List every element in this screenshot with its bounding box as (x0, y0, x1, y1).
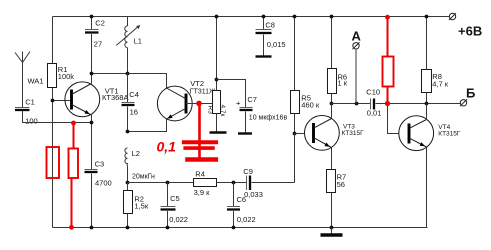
node R5 VT3 base (293, 132, 297, 136)
svg-text:0,022: 0,022 (237, 215, 256, 224)
red resistor annotation 2 (69, 149, 79, 179)
svg-text:0,015: 0,015 (267, 40, 286, 49)
node red rail (385, 15, 390, 20)
node C3 bottom rail (90, 226, 94, 230)
svg-text:L1: L1 (134, 37, 142, 46)
capacitor C3 (85, 123, 98, 228)
wire collector node to VT2 collector (92, 74, 167, 89)
svg-text:100: 100 (25, 116, 38, 125)
svg-text:4700: 4700 (95, 178, 112, 187)
antenna WA1 (15, 52, 30, 108)
resistor R3 (213, 17, 221, 132)
resistor R6 (328, 17, 337, 104)
inductor L1 variable (116, 17, 140, 74)
transistor VT1 (65, 82, 100, 117)
capacitor C4 (122, 74, 135, 132)
node C5 rail (166, 226, 170, 230)
svg-text:0,01: 0,01 (367, 109, 382, 118)
node red bottom (385, 101, 390, 106)
node VT1 collector (90, 72, 94, 76)
red resistor annotation 1 (47, 147, 60, 178)
wire VT3 base (295, 133, 314, 135)
transistor VT3 (305, 115, 340, 150)
wire right column VT4 emitter to bottom rail (427, 147, 428, 228)
svg-text:R4: R4 (195, 169, 205, 178)
svg-text:C8: C8 (265, 20, 275, 29)
node R7 rail (330, 226, 334, 230)
capacitor C1 (15, 108, 30, 111)
svg-text:4,7к: 4,7к (219, 105, 226, 117)
svg-text:C9: C9 (243, 167, 253, 176)
svg-text:+6В: +6В (458, 24, 482, 39)
svg-text:1,5к: 1,5к (134, 202, 148, 211)
capacitor C5 (161, 183, 176, 228)
wire R4 to C9 (217, 182, 247, 184)
transistor VT4 (399, 116, 434, 151)
svg-text:C4: C4 (129, 90, 139, 99)
wire C1 bottom to emitter wire (23, 111, 92, 123)
node rail R5 (293, 15, 297, 19)
svg-text:460 к: 460 к (301, 101, 320, 110)
red annotation line VT1 emitter (73, 123, 75, 149)
wire top +6V rail (53, 16, 450, 18)
resistor R5 (291, 17, 300, 134)
capacitor C9 (247, 176, 251, 191)
svg-text:4,7 к: 4,7 к (432, 79, 449, 88)
wire R6 node to C10 (332, 103, 371, 105)
node C5 (166, 181, 170, 185)
resistor R2 (124, 183, 133, 228)
wire VT3 emitter to R7 (331, 148, 333, 170)
node base VT1 (51, 99, 55, 103)
node C4 L2 junction (126, 130, 130, 134)
svg-text:WA1: WA1 (28, 77, 44, 86)
node red rail (69, 225, 74, 230)
svg-text:16: 16 (130, 108, 138, 117)
svg-text:0,1: 0,1 (157, 139, 177, 155)
ground C7 (238, 132, 252, 134)
svg-text:56: 56 (337, 180, 345, 189)
wire bottom ground rail (53, 227, 428, 229)
svg-text:0,022: 0,022 (169, 215, 188, 224)
capacitor C6 (227, 183, 240, 228)
inductor L2 (125, 148, 128, 183)
node R8 bottom (425, 102, 429, 106)
node R3 top wire (215, 78, 219, 82)
wire L2 R4 C9 row (128, 182, 194, 184)
wire left column R1 from rail to bottom rail (52, 17, 54, 228)
node R2 bottom rail (126, 226, 130, 230)
node C6 (232, 181, 236, 185)
svg-text:КТ315Г: КТ315Г (438, 131, 461, 138)
terminal Б (460, 99, 467, 106)
node rail R6 (330, 15, 334, 19)
svg-text:VT2: VT2 (190, 79, 204, 88)
svg-text:C1: C1 (25, 97, 35, 106)
wire VT1 base (53, 100, 72, 102)
svg-text:10 мкфх16в: 10 мкфх16в (249, 114, 288, 121)
ground C8 (256, 55, 272, 57)
svg-text:C6: C6 (237, 195, 247, 204)
wire VT1 collector up to node (91, 74, 93, 84)
svg-text:1 к: 1 к (338, 79, 348, 88)
svg-text:КТ315Г: КТ315Г (342, 130, 365, 137)
node VT1 emitter (90, 121, 94, 125)
terminal A (353, 42, 360, 49)
svg-text:C3: C3 (95, 159, 105, 168)
resistor red highlighted (383, 17, 394, 107)
svg-text:C2: C2 (95, 19, 105, 28)
resistor R7 (327, 170, 336, 228)
wire VT4 collector (426, 104, 428, 120)
wire C10 to R8 node to Б (376, 103, 461, 105)
wire VT3 collector (331, 104, 333, 119)
node rail R3 (215, 15, 219, 19)
svg-text:C10: C10 (366, 87, 380, 96)
wire VT2 emitter to C4 node (128, 119, 167, 132)
node R6 bottom (330, 102, 334, 106)
capacitor C7 electrolytic (240, 108, 253, 133)
capacitor C10 (371, 99, 375, 110)
svg-text:А: А (352, 29, 362, 44)
svg-text:L2: L2 (132, 149, 140, 158)
red annotation capacitor 0,1 (182, 103, 218, 160)
node L1 bottom (126, 72, 130, 76)
wire VT1 emitter down (91, 115, 93, 123)
svg-text:3,9 к: 3,9 к (194, 188, 211, 197)
capacitor C2 (85, 17, 99, 74)
node red VT2 base (196, 101, 202, 107)
ground main (321, 228, 343, 236)
transistor VT2 (157, 86, 192, 121)
ground R3 (210, 131, 227, 133)
resistor R8 (422, 17, 432, 104)
wire C9 to corner (252, 182, 295, 184)
wire VT4 base (388, 106, 410, 134)
resistor R1 (48, 64, 57, 88)
svg-text:+: + (236, 99, 241, 108)
node red emitter wire (71, 121, 76, 126)
wire R3 node to C7 (217, 80, 246, 108)
svg-text:КТ368А: КТ368А (102, 93, 128, 102)
capacitor C8 (256, 17, 272, 56)
svg-text:C7: C7 (247, 95, 257, 104)
svg-text:20мкГн: 20мкГн (132, 174, 155, 181)
wire A terminal down (355, 49, 358, 104)
svg-text:100k: 100k (58, 72, 75, 81)
node C6 rail (232, 226, 236, 230)
svg-text:Б: Б (466, 86, 475, 101)
node L2 bottom (126, 181, 130, 185)
svg-text:0,033: 0,033 (244, 190, 263, 199)
terminal +6V (449, 13, 456, 20)
svg-text:27: 27 (94, 40, 102, 49)
red annotation line to rail (71, 178, 73, 228)
node rail R8 (425, 15, 429, 19)
wire VT2 base to R3 (186, 103, 213, 105)
wire C9 node up to VT3 base node (294, 134, 296, 183)
node A column (355, 102, 359, 106)
svg-text:C5: C5 (170, 194, 180, 203)
resistor R4 (194, 179, 217, 187)
node rail C2 (90, 15, 94, 19)
node rail C8 (262, 15, 266, 19)
svg-text:R3: R3 (206, 106, 213, 115)
